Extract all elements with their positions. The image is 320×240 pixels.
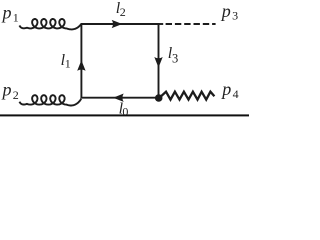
wire l0 (bottom propagator) [81,97,160,99]
dashed scalar line to p3 [159,23,164,25]
svg-text:1: 1 [13,10,19,24]
wire l3 (right propagator) [158,23,160,98]
svg-text:3: 3 [172,51,178,65]
wire l1 (left propagator) [80,23,82,98]
svg-text:2: 2 [13,88,19,102]
arrow on l1 (up) [77,60,85,71]
zigzag boson line to p4 [160,92,215,100]
svg-text:p: p [220,1,231,21]
Feynman box diagram: gg -> scalar + boson [0,0,249,120]
svg-text:p: p [1,80,12,100]
svg-text:p: p [1,3,12,23]
gluon g1 (incoming p1, top left) [19,19,81,29]
svg-text:0: 0 [122,105,128,119]
svg-text:4: 4 [233,87,239,101]
arrow on l2 (right) [112,20,123,28]
gluon g2 (incoming p2, bottom left) [19,95,81,105]
arrow on l0 (left) [113,94,124,102]
svg-text:1: 1 [65,56,71,70]
bottom rule [0,114,249,116]
arrow on l3 (down) [154,57,162,68]
wire l2 (top propagator) [81,23,160,25]
svg-text:p: p [220,79,231,99]
svg-text:2: 2 [120,5,126,19]
vertex dot [155,94,163,102]
svg-text:3: 3 [232,9,238,23]
